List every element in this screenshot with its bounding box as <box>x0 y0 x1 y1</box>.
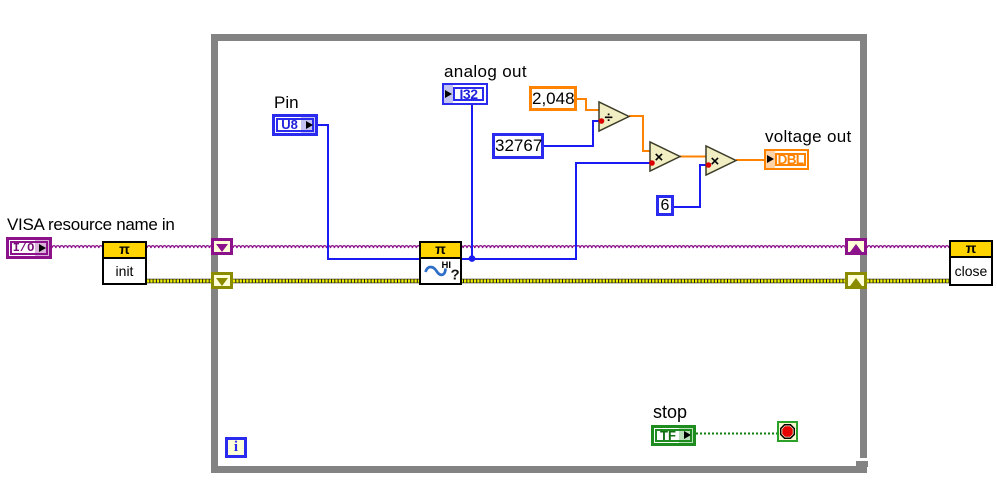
wire blue: branch up to analog out indicator <box>471 105 473 259</box>
wire green dotted: stop TF to loop condition terminal <box>696 433 778 435</box>
multiply node 2 <box>706 146 736 175</box>
while loop border <box>211 34 867 473</box>
label voltage out <box>765 127 851 147</box>
right shift register purple <box>845 238 867 255</box>
wire junction dot <box>469 255 476 262</box>
coercion dot multiply 1 <box>649 160 655 166</box>
divide node <box>599 102 629 131</box>
wire error cluster: init to left shift register <box>147 279 211 283</box>
left shift register olive <box>211 272 233 289</box>
svg-text:×: × <box>655 149 664 166</box>
wire orange: 2,048 to divide <box>577 99 599 110</box>
multiply node 1 <box>650 142 680 171</box>
wire orange: multiply 2 to voltage out <box>736 159 764 161</box>
wire error cluster: left shift register to right shift register (passes under sine subVI) <box>233 279 845 283</box>
wire blue: 32767 to divide <box>544 121 599 146</box>
svg-text:÷: ÷ <box>605 109 613 126</box>
right shift register olive <box>845 272 867 289</box>
stop TF control <box>651 425 696 446</box>
constant 6 <box>656 195 674 216</box>
coercion dot multiply 2 <box>706 162 712 168</box>
label analog out <box>444 62 527 82</box>
constant 2,048 <box>529 86 577 111</box>
wire error cluster: right shift register to close <box>867 279 949 283</box>
svg-text:?: ? <box>451 267 460 284</box>
sine subVI <box>419 241 462 285</box>
Pin U8 control <box>272 114 318 136</box>
wire orange: multiply 1 to multiply 2 <box>680 156 706 158</box>
analog out I32 indicator <box>442 83 488 105</box>
left shift register purple <box>211 238 233 255</box>
constant 32767 <box>492 133 544 159</box>
wire blue: 6 to multiply 2 <box>673 165 706 207</box>
label Pin <box>274 93 299 113</box>
wire blue: Pin U8 to sine subVI <box>318 125 419 259</box>
wire VISA purple: left shift register to right shift register (passes under sine subVI) <box>233 246 849 248</box>
label stop <box>653 402 687 423</box>
coercion dot divide <box>599 118 605 124</box>
init subVI <box>102 241 147 285</box>
loop iteration terminal i <box>225 437 247 458</box>
label VISA resource name in <box>7 215 175 235</box>
voltage out DBL indicator <box>764 149 809 170</box>
wire VISA purple: init to left shift register <box>147 246 213 248</box>
wire blue: sine subVI out to multiply 1 <box>462 163 650 259</box>
close subVI <box>949 240 993 286</box>
while loop corner step bottom-right <box>860 458 867 462</box>
loop condition terminal (stop sign) <box>777 421 798 442</box>
svg-text:×: × <box>711 153 720 170</box>
wire orange: divide to multiply 1 <box>629 116 650 151</box>
wire VISA purple: I/O control to init <box>52 246 103 248</box>
wire VISA purple: right shift register to close <box>867 246 953 248</box>
VISA I/O control <box>6 237 52 259</box>
